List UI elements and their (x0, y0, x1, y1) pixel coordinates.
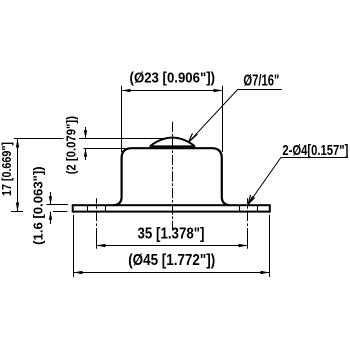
dim 2: body top extension line (84, 148, 134, 150)
leader Ø7/16: arrowhead at ball (open V) (189, 133, 198, 142)
dim 1.6: lower arrow (points up to flange bottom) (50, 212, 52, 225)
svg-text:(2 [0.079"]): (2 [0.079"]) (64, 116, 78, 174)
svg-text:(1.6 [0.063"]): (1.6 [0.063"]) (32, 166, 46, 245)
part outline: flange plate (73, 205, 270, 211)
part outline: ball dome (150, 138, 194, 146)
left mounting hole edge ticks (87, 206, 89, 211)
dim 17: top extension line (ball top level) (14, 138, 166, 140)
dim 17: top arrowhead (16, 139, 19, 148)
dim 2: white backing for rotated text (64, 116, 80, 176)
leader Ø7/16: polyline (189, 90, 282, 143)
dim Ø23: right extension line (222, 86, 224, 152)
main vertical centerline (172, 122, 174, 230)
dim 17: bottom extension line stub (flange bottom level) (11, 211, 23, 213)
leader 2-Ø4: arrowhead at hole (open V) (248, 195, 254, 204)
dim 35: right arrowhead (239, 244, 248, 247)
svg-text:17 [0.669"]: 17 [0.669"] (0, 142, 14, 196)
dim Ø45: right arrowhead (261, 271, 270, 274)
dim Ø23: left arrowhead (122, 89, 131, 92)
left hole centerline / extension for 35 dim (96, 198, 98, 249)
svg-text:2-Ø4[0.157"]: 2-Ø4[0.157"] (282, 142, 348, 159)
dim 1.6: flange top extension line (47, 204, 69, 206)
dim Ø23: right arrowhead (214, 89, 223, 92)
right mounting hole edge ticks (239, 206, 241, 211)
dim Ø23: dimension line (122, 90, 223, 92)
dim 17: bottom arrowhead (16, 203, 19, 212)
svg-text:35 [1.378"]: 35 [1.378"] (138, 226, 205, 243)
dim 2: lower arrow (points up to body top line) (85, 148, 87, 160)
dim 35: dimension line (97, 245, 248, 247)
dim Ø23: left extension line (121, 86, 123, 152)
dim 2: upper arrow (points down to ball top line) (85, 127, 87, 139)
dim Ø45: left extension line (73, 215, 75, 277)
leader 2-Ø4: polyline (248, 158, 348, 205)
dim 1.6: flange bottom extension line (53, 211, 68, 213)
dim 1.6: upper arrow (points down to flange top) (50, 192, 52, 205)
part outline: housing body (114, 148, 230, 205)
right hole centerline / extension for 35 dim (247, 198, 249, 249)
dim 17: dimension line (17, 139, 19, 212)
part outline: ball seat rim line (150, 145, 196, 147)
dim Ø45: right extension line (269, 215, 271, 277)
svg-text:Ø7/16": Ø7/16" (243, 73, 279, 90)
svg-text:(Ø45 [1.772"]): (Ø45 [1.772"]) (128, 252, 215, 269)
dim Ø45: left arrowhead (74, 271, 83, 274)
svg-text:(Ø23 [0.906"]): (Ø23 [0.906"]) (130, 71, 216, 87)
dim 35: left arrowhead (97, 244, 106, 247)
dim Ø45: dimension line (74, 272, 270, 274)
